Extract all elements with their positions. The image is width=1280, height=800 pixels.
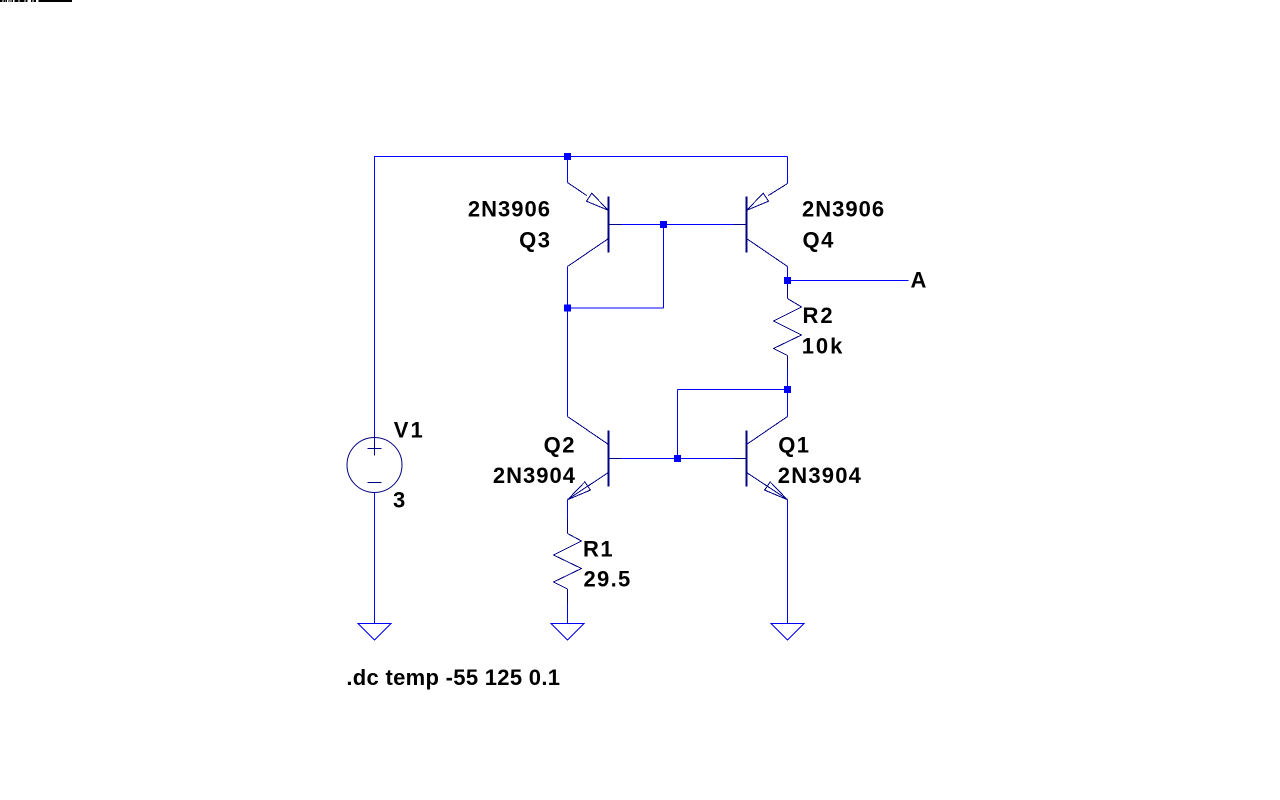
svg-text:Q1: Q1: [778, 433, 810, 458]
wire R1 bottom to ground: [567, 589, 569, 624]
transistor Q2 2N3904: [568, 417, 622, 500]
resistor R1 29.5: [554, 519, 582, 604]
svg-text:V1: V1: [394, 418, 425, 443]
svg-text:2N3904: 2N3904: [493, 463, 576, 488]
svg-text:10k: 10k: [802, 334, 845, 359]
wire base rail Q3-Q4: [609, 224, 747, 226]
wire R2 bottom to Q1 collector: [787, 356, 789, 417]
ground R1: [551, 624, 584, 641]
wire Q3 emitter stub: [567, 157, 569, 183]
svg-text:Q2: Q2: [544, 433, 576, 458]
svg-text:A: A: [911, 268, 927, 293]
svg-text:R2: R2: [803, 303, 835, 328]
junction node collector tie: [564, 305, 571, 312]
ground V1: [358, 624, 391, 641]
svg-text:2N3906: 2N3906: [468, 197, 551, 222]
svg-text:Q4: Q4: [803, 228, 835, 253]
svg-text:R1: R1: [583, 537, 614, 562]
transistor Q4 2N3906: [734, 184, 788, 267]
wire Q1 emitter to ground: [787, 500, 789, 624]
cropped toolbar text remnant top-left: [0, 0, 72, 2]
wire Q4 collector to R2: [787, 267, 789, 299]
junction node R2 bottom: [784, 386, 791, 393]
svg-text:Q3: Q3: [519, 228, 551, 253]
wire left mid vertical Q3c-Q2c: [567, 267, 569, 417]
junction node base rail: [660, 221, 667, 228]
transistor Q3 2N3906: [568, 183, 622, 267]
wire node A horizontal: [788, 280, 909, 282]
svg-text:29.5: 29.5: [584, 567, 632, 592]
transistor Q1 2N3904: [734, 417, 788, 500]
ground Q1: [771, 624, 804, 641]
junction node bottom base: [674, 455, 681, 462]
svg-text:3: 3: [393, 488, 405, 513]
wire base junction drop: [663, 225, 665, 309]
wire Q2 emitter to R1: [567, 500, 569, 534]
wire collector-base tie horizontal: [568, 307, 664, 309]
wire feedback drop: [677, 390, 679, 459]
wire top rail: [375, 156, 788, 158]
voltage source V1: [347, 438, 402, 493]
resistor R2 10k: [774, 285, 802, 369]
svg-text:.dc temp -55 125 0.1: .dc temp -55 125 0.1: [346, 665, 560, 690]
wire base rail Q2-Q1: [609, 458, 747, 460]
junction node A: [784, 277, 791, 284]
junction node top rail: [564, 153, 571, 160]
wire feedback horizontal: [678, 389, 788, 391]
wire Q4 emitter stub: [787, 157, 789, 184]
svg-text:2N3906: 2N3906: [802, 197, 885, 222]
svg-text:2N3904: 2N3904: [778, 463, 862, 488]
wire left rail vertical: [374, 156, 376, 442]
wire V1 bottom to ground: [374, 493, 376, 624]
